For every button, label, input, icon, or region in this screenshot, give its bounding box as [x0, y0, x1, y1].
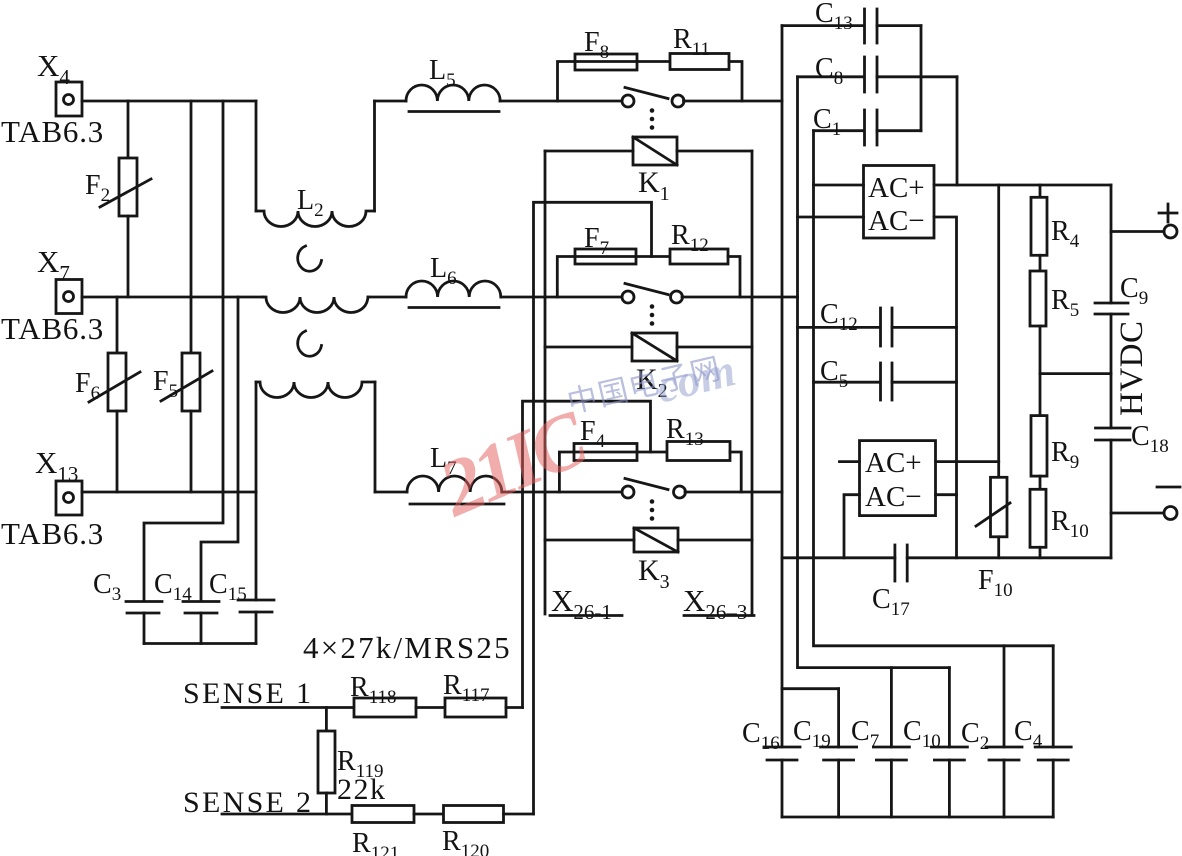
- svg-text:22k: 22k: [337, 773, 387, 806]
- resistor R121: [352, 806, 444, 856]
- inductor L6: [368, 253, 623, 308]
- capacitor C5: [814, 356, 957, 400]
- vertical phase bus B: [814, 131, 1054, 646]
- node SENSE 2: [183, 786, 352, 819]
- capacitor C17: [872, 545, 910, 620]
- wire R5 to R9: [1039, 326, 1042, 416]
- svg-text:HVDC: HVDC: [1114, 320, 1150, 416]
- svg-text:TAB6.3: TAB6.3: [1, 114, 104, 149]
- wire AC- bottom left to bus: [844, 495, 860, 558]
- svg-text:AC−: AC−: [868, 205, 925, 237]
- capacitor C15: [209, 569, 274, 644]
- resistor R4: [1031, 185, 1080, 255]
- coupling curl 2: [298, 331, 322, 356]
- terminal -: [1111, 487, 1180, 520]
- svg-text:TAB6.3: TAB6.3: [1, 311, 104, 346]
- fuse F6: [75, 297, 140, 492]
- inductor L7: [375, 443, 623, 504]
- mid tap to HVDC rail: [1040, 372, 1111, 375]
- svg-text:TAB6.3: TAB6.3: [1, 516, 104, 551]
- wire row1 left: [82, 100, 256, 103]
- vertical bus C13-C16: [781, 26, 784, 747]
- fuse F4: [559, 416, 637, 492]
- terminal X4: [1, 48, 104, 149]
- L2 winding 2: [263, 297, 368, 312]
- wire AC- left: [798, 216, 864, 219]
- node X26-1: [550, 583, 622, 624]
- link C13/C8/C1 right: [920, 26, 923, 131]
- ground bus for C3 C14 C15: [144, 642, 256, 645]
- fuse F8: [558, 27, 638, 101]
- control link to F7/R12 node: [534, 202, 652, 814]
- svg-text:AC−: AC−: [865, 481, 922, 513]
- resistor R5: [1030, 255, 1079, 326]
- resistor R118: [350, 672, 445, 717]
- HVDC rail: [1110, 185, 1113, 303]
- fuse F2: [85, 101, 151, 297]
- wire to C3: [144, 101, 223, 601]
- L2 winding 3: [256, 382, 375, 492]
- capacitor C10: [903, 668, 967, 817]
- capacitor C12: [798, 299, 957, 346]
- capacitor C3: [93, 569, 162, 644]
- terminal +: [1111, 204, 1177, 238]
- capacitor C9: [1095, 273, 1148, 314]
- bottom bus with C17: [782, 556, 895, 559]
- resistor R120: [442, 806, 534, 856]
- capacitor C18: [1096, 421, 1169, 457]
- capacitor C13: [782, 0, 921, 43]
- dotted link row1: [650, 108, 655, 130]
- wire C8 to AC+ line: [956, 77, 959, 185]
- dotted link row2: [650, 304, 655, 326]
- svg-text:4×27k/MRS25: 4×27k/MRS25: [303, 630, 512, 665]
- resistor R119: [318, 708, 387, 815]
- fuse F5: [153, 101, 212, 492]
- control link to F4/R13 node: [523, 401, 651, 707]
- resistor R10: [1030, 476, 1089, 558]
- node X26-3: [683, 583, 754, 624]
- terminal X7: [1, 244, 104, 346]
- switch contact row2: [622, 284, 798, 304]
- capacitor C2: [961, 646, 1022, 817]
- wire AC+ left: [814, 184, 864, 187]
- resistor R9: [1031, 416, 1079, 477]
- node SENSE 1: [183, 677, 354, 710]
- bus AC+ top: [934, 184, 1111, 187]
- switch contact row1: [558, 88, 783, 108]
- stub AC+ bottom left: [840, 460, 860, 463]
- capacitor C1: [813, 104, 921, 145]
- resistor R12: [636, 220, 740, 297]
- terminal X13: [1, 445, 104, 551]
- fuse F7: [557, 223, 636, 297]
- capacitor C16: [742, 718, 800, 817]
- wire row2 left: [82, 296, 263, 299]
- coupling curl 1: [298, 246, 322, 271]
- capacitor C19: [782, 689, 857, 817]
- resistor R11: [637, 24, 742, 101]
- capacitor C4: [1014, 646, 1071, 817]
- inductor L5: [375, 55, 558, 112]
- bus AC- down: [934, 217, 957, 558]
- bottom ground bus: [782, 816, 1053, 819]
- capacitor C8: [798, 53, 958, 92]
- wire row3 left: [82, 491, 256, 494]
- coil drive line right to X26-3: [751, 151, 754, 614]
- svg-text:AC+: AC+: [868, 172, 925, 204]
- resistor R13: [637, 414, 741, 492]
- dotted link row3: [650, 499, 655, 521]
- switch contact row3: [622, 479, 782, 499]
- relay coil K2: [545, 333, 752, 402]
- coil drive line left to X26-1: [544, 151, 547, 614]
- resistor R117: [443, 670, 523, 717]
- fuse F10: [976, 185, 1013, 601]
- wire AC+ bottom right to F10: [936, 460, 999, 463]
- rectifier module top: [864, 166, 935, 239]
- capacitor C7: [851, 668, 909, 817]
- svg-text:AC+: AC+: [865, 447, 922, 479]
- wire AC- bottom right: [936, 493, 957, 496]
- wire to C15: [255, 492, 258, 600]
- vertical phase bus A: [798, 77, 950, 668]
- svg-text:SENSE 1: SENSE 1: [183, 677, 313, 710]
- relay coil K3: [545, 528, 752, 593]
- rectifier module bottom: [860, 441, 936, 516]
- relay coil K1: [545, 137, 752, 205]
- wire to C14: [201, 297, 238, 601]
- capacitor C14: [154, 569, 219, 644]
- inductor L2 (common-mode choke, three windings): [256, 101, 375, 226]
